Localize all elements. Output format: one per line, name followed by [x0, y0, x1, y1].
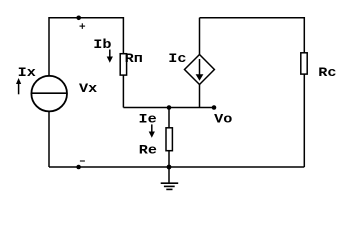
svg-text:Ic: Ic [168, 52, 186, 67]
svg-text:Vo: Vo [214, 112, 232, 127]
svg-text:Rc: Rc [318, 66, 336, 81]
svg-text:Vx: Vx [79, 82, 98, 97]
svg-text:Ix: Ix [18, 66, 37, 81]
svg-text:Re: Re [139, 143, 157, 158]
svg-text:Ie: Ie [139, 112, 157, 127]
svg-text:Ib: Ib [93, 38, 111, 53]
svg-text:Rп: Rп [125, 52, 143, 67]
